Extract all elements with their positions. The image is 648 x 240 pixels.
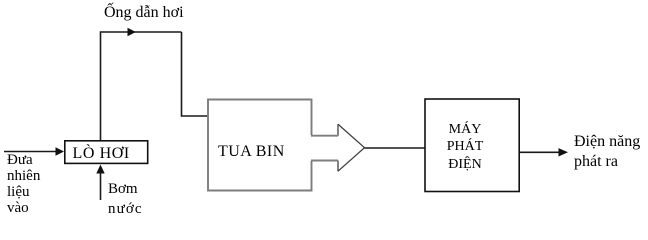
label: Điện năng phát ra (output)	[574, 133, 640, 151]
wire: water pump arrow into boiler bottom	[100, 172, 102, 200]
label: Bơm nước (water pump)	[108, 179, 143, 219]
wire: electric output arrow	[520, 151, 560, 153]
block TUA BIN (turbine) box, gray border with gap on right edge	[208, 100, 312, 191]
label: Đưa nhiên liệu vào (fuel input, 4 lines)	[7, 152, 40, 216]
label inside turbine: TUA BIN	[218, 144, 285, 160]
wire: steam pipe from boiler top, up and right	[101, 32, 208, 140]
arrowhead electric output	[559, 148, 569, 156]
label inside generator: MÁY PHÁT ĐIỆN (3 lines, centered)	[418, 121, 512, 174]
block MÁY PHÁT ĐIỆN (generator) box	[425, 99, 519, 192]
block LÒ HƠI (boiler) box	[65, 141, 148, 164]
label inside boiler: LÒ HƠI	[73, 146, 130, 162]
wire: connector from block-arrow tip to generator box	[365, 147, 425, 149]
arrowhead fuel input	[56, 147, 65, 155]
label: Ống dẫn hơi (steam pipe label)	[104, 4, 184, 22]
label: phát ra (output line 2)	[574, 153, 618, 171]
arrowhead pump arrow (pointing up)	[96, 165, 104, 174]
block arrow from turbine to generator (open tail)	[311, 124, 365, 171]
wire: fuel input arrow into boiler	[4, 151, 57, 153]
arrowhead on steam pipe (pointing right)	[128, 28, 136, 36]
